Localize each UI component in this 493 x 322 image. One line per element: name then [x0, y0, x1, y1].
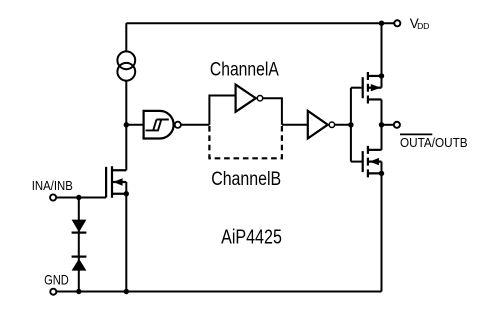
wire: VDD top rail: [126, 22, 394, 24]
wire: Q3 body/source down to GND rail: [125, 182, 127, 292]
wire: left bus from VDD rail to current source: [125, 23, 127, 51]
wire: input to Q3 gate: [57, 197, 107, 199]
wire: gate bus vertical: [350, 88, 352, 162]
bubble: Schmitt trigger output: [175, 122, 181, 128]
junction: output node: [379, 122, 384, 127]
svg-text:AiP4425: AiP4425: [221, 226, 282, 248]
wire: output node down to Q2 drain: [381, 125, 383, 150]
transistor Q1 (PMOS, output high side): [363, 72, 382, 104]
terminal INA/INB: [50, 194, 56, 200]
junction: Q1 source/body tie: [379, 73, 384, 78]
wire: VDD down to Q1: [381, 23, 383, 88]
junction: Q3 source/body tie: [124, 191, 129, 196]
overline for OUTA: [400, 133, 432, 135]
svg-text:INA/INB: INA/INB: [32, 178, 73, 193]
arrow: Q2 body (points left): [370, 158, 379, 165]
wire: Channel A/B output to inverter U3: [282, 124, 308, 126]
wire: output node to terminal: [382, 124, 395, 126]
transistor Q3 (input NMOS): [106, 166, 126, 198]
label VDD: [410, 16, 429, 31]
bubble: inverter U3 output: [329, 122, 335, 128]
junction: Q2 source/body tie: [379, 171, 384, 176]
wire: clamp diode chain: [78, 198, 80, 292]
inverter U2 (Channel A): [236, 85, 256, 112]
diode D1 (cathode down): [72, 220, 87, 233]
diode D2 (cathode up): [72, 257, 87, 271]
wire: U3 output to gate bus: [335, 124, 351, 126]
wire: left bus, current source down to input FET drain: [125, 81, 127, 171]
Schmitt trigger U1: [144, 111, 174, 139]
junction: Schmitt input node: [124, 122, 129, 127]
junction: diode chain / GND rail: [76, 289, 81, 294]
svg-text:DD: DD: [417, 21, 429, 31]
arrow: Q3 body (points left): [113, 178, 122, 185]
wire: PMOS gate lead: [351, 87, 362, 89]
wire: Schmitt output to Channel A: [181, 124, 209, 126]
junction: VDD rail / PMOS source: [379, 21, 384, 26]
terminal OUTA/OUTB: [394, 122, 400, 128]
current source I1: [117, 51, 135, 80]
svg-text:GND: GND: [44, 273, 69, 288]
wire: Q2 body/source down to GND rail: [381, 162, 383, 292]
bubble: inverter U2 output: [257, 95, 263, 101]
terminal GND: [50, 289, 56, 295]
svg-text:ChannelA: ChannelA: [210, 60, 279, 81]
wire: Q1 drain down to output node: [381, 99, 383, 124]
junction: Q3 source / GND rail: [124, 289, 129, 294]
wire: NMOS gate lead: [351, 161, 363, 163]
svg-text:ChannelB: ChannelB: [211, 169, 281, 190]
dashed box: Channel B: [209, 126, 282, 158]
inverter U3: [308, 111, 328, 138]
wire: U2 output down to main row: [263, 98, 282, 125]
arrow: Q1 body (points right): [371, 84, 381, 91]
wire: node to Schmitt trigger input: [126, 124, 143, 126]
transistor Q2 (NMOS, output low side): [363, 146, 382, 178]
junction: gate bus node: [348, 122, 353, 127]
svg-text:OUTA/OUTB: OUTA/OUTB: [400, 135, 468, 150]
terminal VDD: [394, 20, 400, 26]
wire: GND bottom rail: [57, 291, 382, 293]
wire: Channel A riser up and top run: [209, 96, 235, 125]
junction: input node / clamp diodes: [76, 195, 81, 200]
